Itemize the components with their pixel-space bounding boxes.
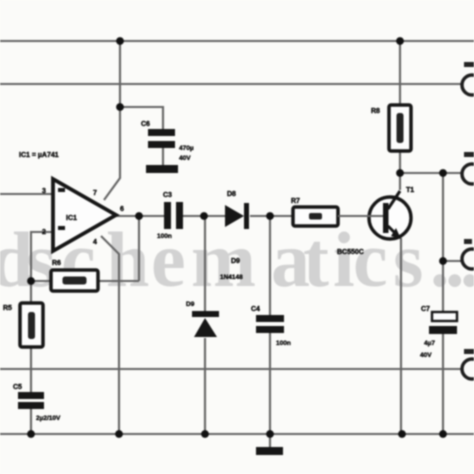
- diode D9: [186, 301, 219, 337]
- wire right bus down to C7: [442, 173, 444, 313]
- wire pin4 to ground: [101, 236, 119, 434]
- transistor Q1 T1: [337, 187, 414, 256]
- capacitor C5: [13, 384, 61, 422]
- wire rail C: [0, 368, 462, 370]
- wire terminal 3 stub: [443, 260, 462, 262]
- svg-text:C5: C5: [13, 384, 22, 391]
- wire R8 bottom to collector node: [399, 151, 401, 190]
- terminal K3: [462, 249, 474, 269]
- wire T1 base: [338, 215, 384, 217]
- wire V+ drop to IC1 pin7: [104, 41, 120, 200]
- wire feedback to R6: [98, 280, 139, 282]
- terminal K4: [462, 359, 474, 379]
- svg-text:6: 6: [120, 206, 124, 213]
- wire C4 branch upper: [269, 216, 271, 315]
- capacitor C7: [420, 306, 457, 359]
- wire R8 top stub: [399, 41, 401, 104]
- resistor R7: [291, 198, 338, 226]
- svg-text:C3: C3: [163, 192, 172, 199]
- terminal tick 1: [464, 62, 474, 354]
- svg-text:D8: D8: [227, 191, 236, 198]
- ground under C6: [146, 165, 178, 173]
- capacitor C3: [157, 192, 183, 240]
- wire to C6: [120, 107, 163, 130]
- svg-text:IC1: IC1: [66, 215, 77, 222]
- node A feedback: [27, 277, 35, 285]
- wire D8 to R7: [250, 215, 293, 217]
- wire rail B: [0, 83, 462, 85]
- node ground D9: [201, 430, 209, 438]
- diode D9 type label: [220, 258, 243, 281]
- svg-text:2: 2: [42, 229, 46, 236]
- wire input pin3: [0, 193, 53, 195]
- wire C6 lower stem: [162, 148, 164, 166]
- terminal tick 3: [464, 239, 472, 244]
- node D9 tap: [200, 212, 208, 220]
- svg-text:40V: 40V: [179, 155, 191, 162]
- wire C3 to D8: [183, 215, 225, 217]
- node collector: [396, 169, 404, 177]
- wire rail D (ground rail): [0, 433, 474, 435]
- node ground C5: [27, 430, 35, 438]
- svg-text:C4: C4: [251, 306, 260, 313]
- svg-text:470µ: 470µ: [179, 145, 194, 152]
- capacitor C6: [141, 121, 194, 162]
- wire emitter down: [400, 238, 402, 434]
- svg-text:3: 3: [42, 188, 46, 195]
- svg-text:R6: R6: [52, 260, 61, 267]
- resistor R6: [51, 260, 98, 291]
- terminal K2: [462, 164, 474, 184]
- svg-text:R7: R7: [291, 198, 300, 205]
- svg-text:4µ7: 4µ7: [424, 340, 435, 347]
- node junction dots: [27, 37, 447, 438]
- wire collector node to terminal row: [400, 172, 462, 174]
- node rail A / R8: [396, 37, 404, 45]
- svg-text:1N4148: 1N4148: [220, 274, 243, 281]
- terminal tick 4: [464, 349, 474, 354]
- svg-text:R5: R5: [3, 305, 12, 312]
- svg-text:C7: C7: [421, 306, 430, 313]
- wire C4 branch lower: [269, 333, 271, 434]
- svg-text:7: 7: [93, 190, 97, 197]
- svg-text:4: 4: [93, 239, 97, 246]
- svg-text:BC550C: BC550C: [337, 249, 364, 256]
- node C4 tap: [266, 212, 274, 220]
- wire feedback drop: [138, 216, 140, 281]
- wire D9 branch lower: [204, 338, 206, 434]
- terminal tick 2: [464, 152, 474, 157]
- wire ground symbol stub: [269, 434, 271, 447]
- node ground pin4: [115, 430, 123, 438]
- wire node A up to pin2: [31, 232, 53, 281]
- svg-text:D9: D9: [231, 258, 240, 265]
- node ground C4: [266, 430, 274, 438]
- svg-text:T1: T1: [406, 187, 414, 194]
- node ground C7: [439, 430, 447, 438]
- svg-text:D9: D9: [186, 301, 195, 308]
- node rail A / V1: [116, 37, 124, 45]
- terminal K1: [462, 75, 474, 379]
- wire C5 to ground rail: [30, 409, 32, 434]
- wire C7 bottom stub: [442, 334, 444, 434]
- wire D9 branch upper: [204, 216, 206, 311]
- node output/feedback: [135, 212, 143, 220]
- svg-text:40V: 40V: [420, 352, 432, 359]
- wire R5 to C5: [30, 347, 32, 392]
- svg-text:IC1 = µA741: IC1 = µA741: [19, 152, 59, 159]
- diode D8: [225, 191, 249, 229]
- svg-text:100n: 100n: [157, 233, 172, 240]
- capacitor C4: [251, 306, 291, 347]
- op-amp U1 IC1: [42, 179, 124, 251]
- wire R6 to node A: [31, 280, 51, 282]
- node C6 tap: [116, 103, 124, 111]
- wire IC1 output to C3: [116, 215, 164, 217]
- wire R5 top stub: [30, 281, 32, 303]
- node right bus mid: [439, 257, 447, 265]
- wire rail A (top supply): [0, 40, 474, 42]
- svg-text:2µ2/10V: 2µ2/10V: [36, 415, 61, 422]
- node ground emitter: [398, 430, 406, 438]
- resistor R5: [3, 303, 43, 347]
- svg-text:C6: C6: [141, 121, 150, 128]
- svg-text:R8: R8: [371, 108, 380, 115]
- svg-text:100n: 100n: [276, 340, 291, 347]
- resistor R8: [371, 105, 411, 151]
- node right bus top: [439, 169, 447, 177]
- ground symbol: [256, 447, 283, 455]
